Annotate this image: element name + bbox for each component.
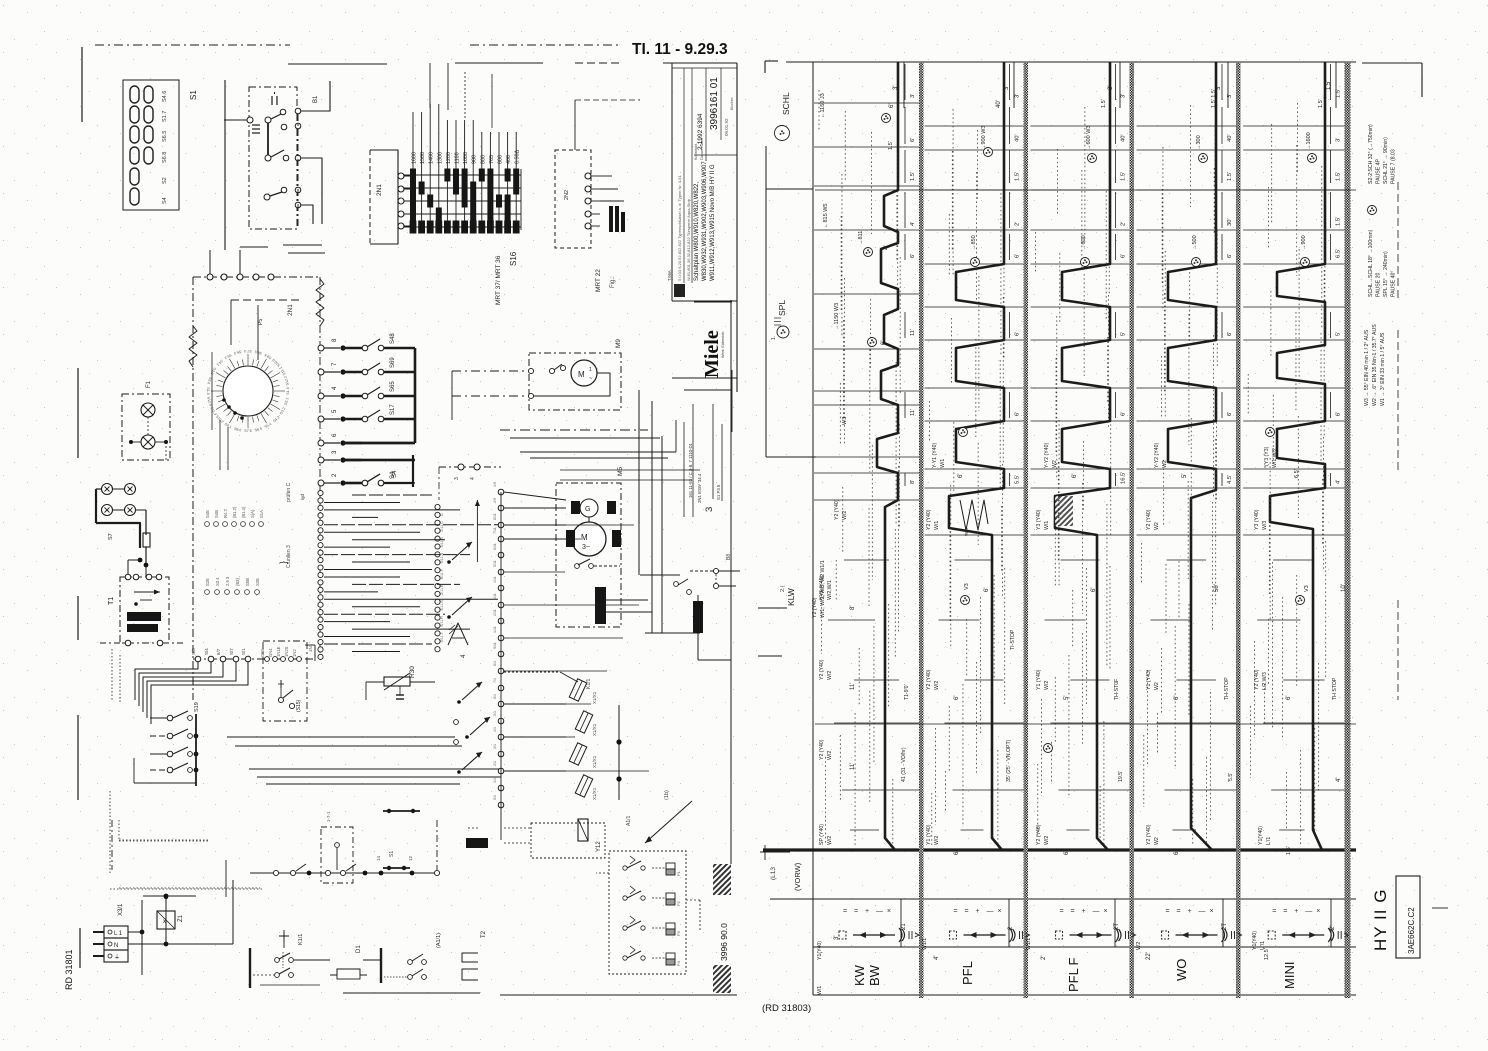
svg-text:×: × [1210, 908, 1214, 915]
svg-text:3AE662C.C2: 3AE662C.C2 [1407, 907, 1416, 954]
svg-text:M9: M9 [615, 339, 622, 348]
svg-text:2-1992 6394: 2-1992 6394 [697, 113, 704, 150]
svg-text:9/11: 9/11 [493, 642, 497, 649]
svg-text:T1: T1 [108, 597, 115, 605]
svg-text:S6.8: S6.8 [162, 152, 168, 163]
svg-text:V3: V3 [1304, 585, 1310, 592]
svg-text:1300: 1300 [437, 152, 443, 164]
chart bottom line [813, 994, 1356, 996]
timer box bottom edge [193, 658, 315, 660]
svg-text:1.5' 1.5': 1.5' 1.5' [1211, 89, 1217, 108]
svg-text:4: 4 [470, 477, 476, 480]
svg-text:Y1(Y40): Y1(Y40) [1258, 826, 1264, 845]
svg-text:6': 6' [1336, 412, 1342, 416]
heating element R1 [693, 601, 703, 633]
svg-text:1N1E: 1N1E [276, 646, 281, 657]
svg-text:MINI: MINI [1282, 962, 1297, 989]
svg-text:6/1: 6/1 [493, 694, 497, 699]
svg-text:2': 2' [1121, 222, 1127, 226]
svg-text:L 1: L 1 [114, 931, 123, 937]
svg-text:2/1: 2/1 [493, 761, 497, 766]
svg-text:Y-Y2 (Y40): Y-Y2 (Y40) [1154, 443, 1160, 468]
step lines column 4 [1137, 125, 1237, 127]
svg-text:6': 6' [910, 254, 916, 258]
contact pair [454, 720, 459, 725]
svg-text:8/11: 8/11 [493, 513, 497, 520]
svg-text:—: — [987, 908, 994, 915]
switch S4 box [362, 459, 413, 461]
resistor R30 [384, 677, 410, 686]
guide lines dotted [818, 90, 820, 130]
svg-text:W/2: W/2 [934, 836, 940, 845]
svg-text:1/11: 1/11 [493, 626, 497, 633]
relay contact K1/1 mid [713, 568, 718, 573]
svg-text:1.5': 1.5' [1336, 172, 1342, 181]
svg-text:W/2: W/2 [827, 671, 833, 680]
B1 right edge [297, 114, 299, 229]
svg-text:~: ~ [589, 376, 593, 382]
pressure switch unit [609, 851, 686, 974]
svg-text:4.5': 4.5' [1227, 475, 1233, 484]
svg-text:K1/1: K1/1 [298, 934, 304, 945]
svg-text:W3: W3 [842, 417, 848, 425]
svg-text:W1 → 3° EIN 33 min 1 / 5° AU: W1 → 3° EIN 33 min 1 / 5° AUS [1380, 332, 1386, 406]
svg-text:T1-9'0’: T1-9'0’ [904, 684, 910, 700]
svg-text:C: C [440, 521, 444, 524]
svg-text:F1: F1 [146, 380, 152, 388]
svg-text:S19: S19 [194, 702, 200, 712]
svg-text:3: 3 [454, 477, 460, 480]
svg-text:600: 600 [498, 155, 504, 164]
svg-text:=: = [954, 908, 958, 915]
switch S19 column [167, 715, 173, 721]
relay arrows cluster [452, 542, 472, 560]
svg-text:W911,W912,W913,W915 Novo M/B H: W911,W912,W913,W915 Novo M/B HY II G [710, 164, 716, 281]
switch S19 bus [195, 714, 197, 786]
mains wires [128, 931, 142, 933]
svg-text:SPL: SPL [777, 300, 787, 316]
lamp [141, 403, 155, 417]
svg-text:Y2 (Y40): Y2 (Y40) [1254, 669, 1260, 690]
relay stack X1/X1 [569, 679, 587, 701]
svg-text:+: + [976, 908, 980, 915]
svg-text:W/2: W/2 [1044, 681, 1050, 690]
svg-text:19.5': 19.5' [1118, 771, 1124, 782]
svg-text:B1: B1 [313, 95, 319, 103]
suppressor D1 [249, 948, 251, 988]
svg-text:W2: W2 [1052, 460, 1058, 468]
svg-text:+: + [1294, 908, 1298, 915]
step lines column 1 [814, 102, 919, 104]
svg-text:W/2: W/2 [934, 681, 940, 690]
relay K contact [448, 623, 468, 645]
signal lamp cluster H [102, 484, 113, 495]
svg-text:PFL F: PFL F [1066, 958, 1081, 992]
svg-text:→1600: →1600 [1306, 132, 1312, 150]
svg-text:6/11: 6/11 [493, 543, 497, 550]
svg-text:6/7: 6/7 [216, 648, 221, 655]
wire stubs [283, 244, 322, 246]
link contacts 3 4 [439, 466, 501, 468]
svg-text:2.(: 2.( [780, 585, 786, 592]
stamp block [674, 284, 685, 297]
wire long risers to right edge [638, 390, 640, 575]
svg-text:→900 W3: →900 W3 [981, 126, 987, 150]
tacho G [580, 499, 598, 517]
svg-text:=: = [854, 908, 858, 915]
switch bank rows [318, 345, 324, 351]
svg-text:3': 3' [1108, 86, 1114, 90]
svg-text:3': 3' [1004, 86, 1010, 90]
svg-text:(B3): (B3) [235, 577, 240, 586]
transformer T1 [120, 577, 169, 643]
svg-text:1N2S: 1N2S [284, 646, 289, 657]
svg-text:K1/1: K1/1 [586, 678, 592, 689]
svg-text:5': 5' [1336, 332, 1342, 336]
svg-text:SP (Y40): SP (Y40) [819, 824, 825, 845]
svg-text:1000: 1000 [463, 152, 469, 164]
relay row above mains [250, 872, 437, 874]
svg-text:→600 W3: →600 W3 [1086, 126, 1092, 150]
wire [209, 250, 211, 274]
svg-text:P3: P3 [676, 930, 681, 936]
svg-text:3': 3' [1015, 94, 1021, 98]
svg-text:(S15): (S15) [296, 699, 302, 712]
wire rungs between chains [352, 494, 432, 496]
svg-text:S17: S17 [390, 404, 396, 415]
svg-text:1.5': 1.5' [1101, 99, 1107, 108]
svg-text:W.81,801,36.32,812-822 Türsper: W.81,801,36.32,812-822 Türsperre Aqua-St… [686, 198, 691, 281]
drain pump M9 [529, 353, 621, 410]
svg-text:Blochm: Blochm [730, 97, 734, 110]
svg-text:3996161 01: 3996161 01 [709, 77, 720, 130]
duration axis column 3 [1115, 64, 1117, 100]
svg-text:1.5': 1.5' [888, 141, 894, 150]
svg-text:6': 6' [1227, 412, 1233, 416]
duration axis column 2 [1009, 64, 1011, 100]
wash zone hatch PFL F [1055, 496, 1073, 526]
svg-text:T.96A: T.96A [667, 270, 672, 281]
svg-text:—: — [876, 908, 883, 915]
svg-text:N: N [114, 943, 118, 949]
svg-text:+: + [1188, 908, 1192, 915]
svg-text:S65: S65 [390, 381, 396, 392]
svg-text:MRT 37/ MRT 36: MRT 37/ MRT 36 [495, 255, 502, 305]
svg-text:Schaltplan W800,W910,W820,W822: Schaltplan W800,W910,W820,W822, [694, 182, 700, 281]
drive motor M5 box [556, 483, 621, 627]
thermal cutout T2 [462, 953, 478, 962]
svg-text:2': 2' [1015, 222, 1021, 226]
svg-text:1.5': 1.5' [1121, 172, 1127, 181]
svg-text:1.5': 1.5' [1326, 81, 1332, 91]
left page right border [730, 300, 732, 864]
svg-text:S2E: S2E [205, 578, 210, 586]
svg-text:Z1: Z1 [178, 914, 184, 922]
B1 armature [267, 123, 269, 155]
svg-text:Y1(Y40): Y1(Y40) [1252, 931, 1258, 950]
svg-text:W2: W2 [1154, 522, 1160, 530]
lamp [141, 435, 155, 449]
temperature trace program WO [1168, 62, 1216, 850]
svg-text:Y1 (Y43): Y1 (Y43) [1146, 669, 1152, 690]
chart top border [786, 61, 1356, 63]
dial position dots [222, 398, 226, 402]
svg-text:J: J [440, 633, 444, 635]
svg-text:W/2: W/2 [842, 511, 848, 520]
svg-text:1100: 1100 [455, 152, 461, 164]
transformer arrow [134, 591, 160, 593]
svg-text:S7.4: S7.4 [244, 349, 251, 353]
wire thick [96, 488, 101, 490]
wire [574, 100, 576, 150]
svg-text:=: = [1177, 908, 1181, 915]
relay stack bus [618, 705, 620, 800]
matrix row wires [404, 174, 521, 176]
svg-text:D: D [440, 513, 444, 516]
svg-text:1.5': 1.5' [910, 172, 916, 181]
svg-text:Fig.:: Fig.: [610, 276, 616, 288]
svg-text:40': 40' [1121, 134, 1127, 142]
svg-text:4': 4' [884, 246, 890, 250]
svg-text:(A1/1): (A1/1) [436, 933, 442, 948]
svg-text:R30: R30 [409, 666, 416, 678]
switch bank bus [414, 348, 417, 443]
svg-text:SCHL 21° → 90min): SCHL 21° → 90min) [1383, 137, 1389, 184]
svg-text:2N1: 2N1 [376, 184, 383, 196]
svg-text:←815 W5: ←815 W5 [823, 204, 829, 228]
svg-text:TI-STOP: TI-STOP [1010, 629, 1016, 650]
svg-text:3': 3' [893, 86, 899, 90]
svg-text:2N1: 2N1 [287, 304, 294, 316]
svg-text:X1/X1: X1/X1 [592, 723, 597, 736]
svg-text:6': 6' [1227, 254, 1233, 258]
relay S15 box [263, 641, 307, 721]
mark [1432, 907, 1448, 909]
svg-text:KLW: KLW [786, 588, 796, 606]
svg-text:4/11: 4/11 [440, 604, 444, 611]
svg-text:(RD 31803): (RD 31803) [762, 1003, 811, 1014]
svg-text:6': 6' [1072, 474, 1078, 478]
svg-text:S7.6: S7.6 [244, 429, 251, 433]
svg-text:6.50Δ: 6.50Δ [515, 150, 521, 164]
svg-text:S/4: S/4 [204, 648, 209, 655]
svg-text:A1/1: A1/1 [626, 815, 632, 826]
matrix diode cells [410, 169, 416, 182]
svg-text:→300: →300 [1196, 135, 1202, 150]
svg-text:D1: D1 [356, 945, 362, 953]
svg-text:S4: S4 [392, 470, 398, 478]
thermostat in M5 [575, 564, 580, 569]
wire [596, 872, 609, 874]
svg-text:TH-STOP: TH-STOP [1224, 677, 1230, 700]
contact (A1/1) [408, 960, 413, 965]
svg-text:2/11: 2/11 [440, 525, 444, 532]
dotted guides bottom left [111, 649, 113, 700]
svg-text:PAUSE 20: PAUSE 20 [1376, 272, 1382, 297]
svg-text:6.5': 6.5' [1294, 469, 1300, 478]
wire [429, 63, 431, 108]
svg-text:'5.5': '5.5' [1228, 773, 1234, 782]
svg-text:M: M [578, 370, 585, 379]
svg-text:P2: P2 [676, 900, 681, 906]
svg-text:30': 30' [1227, 218, 1233, 226]
transformer windings [127, 612, 161, 621]
wire stubs from 11-pin chain [504, 524, 634, 526]
temperature trace program MINI [1270, 62, 1325, 850]
svg-text:⏚: ⏚ [114, 954, 120, 961]
svg-text:H: H [440, 616, 444, 619]
chart thick baseline [763, 848, 1356, 851]
black connector bar [595, 587, 606, 624]
svg-text:V3: V3 [964, 583, 970, 590]
timer top pins [207, 274, 213, 280]
svg-text:5': 5' [1064, 696, 1070, 700]
svg-text:Y2 (Y40): Y2 (Y40) [812, 597, 818, 618]
svg-text:T2: T2 [481, 930, 487, 938]
svg-text:8/1: 8/1 [493, 661, 497, 666]
svg-text:2': 2' [1041, 956, 1047, 960]
svg-text:→811: →811 [858, 231, 864, 245]
svg-text:11': 11' [850, 763, 856, 770]
svg-text:6': 6' [954, 851, 960, 855]
svg-text:RD 31801: RD 31801 [64, 949, 74, 990]
svg-text:3: 3 [704, 507, 715, 512]
svg-text:S1.7: S1.7 [162, 111, 168, 122]
svg-text:3/1: 3/1 [493, 744, 497, 749]
svg-text:S4B: S4B [214, 510, 219, 518]
svg-text:1200: 1200 [446, 152, 452, 164]
motor M5 symbol [572, 522, 606, 556]
svg-text:=: = [1166, 908, 1170, 915]
wire [452, 370, 529, 372]
svg-text:5/1: 5/1 [493, 711, 497, 716]
connector chain X8 left [435, 504, 440, 509]
svg-text:S5B: S5B [245, 578, 250, 586]
dial pointer wires [230, 300, 232, 345]
margin reference line [765, 146, 767, 457]
interference filter Z1 [157, 911, 175, 929]
svg-text:S3 4: S3 4 [215, 577, 220, 586]
svg-text:—: — [1093, 908, 1100, 915]
svg-text:12.5': 12.5' [1264, 948, 1270, 960]
svg-text:Y2 (Y40): Y2 (Y40) [834, 499, 840, 520]
svg-text:W/2,W/1: W/2,W/1 [827, 580, 833, 600]
door lock contacts S1 [387, 809, 391, 813]
svg-text:400: 400 [506, 155, 512, 164]
wire [145, 510, 147, 535]
file box 3AE662C.C2 [1396, 876, 1420, 958]
svg-text:09.01.92: 09.01.92 [724, 118, 729, 136]
svg-text:6': 6' [1064, 851, 1070, 855]
svg-text:6': 6' [1015, 254, 1021, 258]
svg-text:W/2: W/2 [1044, 836, 1050, 845]
wire [301, 205, 313, 224]
svg-text:S1: S1 [189, 90, 198, 100]
svg-text:1600: 1600 [412, 152, 418, 164]
svg-text:6': 6' [1121, 412, 1127, 416]
svg-text:1.5': 1.5' [1227, 172, 1233, 181]
svg-text:3996 90.0: 3996 90.0 [719, 923, 729, 961]
svg-text:G: G [585, 506, 590, 513]
duration axis column 1 [904, 64, 906, 100]
transformer bottom pins [125, 640, 131, 646]
svg-text:14: 14 [376, 855, 381, 861]
svg-text:S7: S7 [108, 533, 114, 540]
svg-text:S2E: S2E [255, 578, 260, 586]
svg-text:11': 11' [850, 683, 856, 690]
svg-text:P5: P5 [258, 319, 264, 325]
svg-text:1.5': 1.5' [1336, 217, 1342, 226]
svg-text:8': 8' [910, 480, 916, 484]
program dial [223, 366, 273, 416]
timer bottom pins [195, 656, 201, 662]
svg-text:GN4: GN4 [268, 648, 273, 657]
temperature trace program PFL [949, 62, 1004, 850]
svg-text:S/7: S/7 [229, 648, 234, 655]
svg-text:5': 5' [1121, 332, 1127, 336]
pressure pot [666, 923, 675, 929]
svg-text:1.5': 1.5' [1286, 846, 1292, 855]
svg-text:4/11: 4/11 [493, 576, 497, 583]
svg-text:Y1 (Y40): Y1 (Y40) [926, 824, 932, 845]
step lines column 5 [1243, 125, 1344, 127]
svg-text:W/1: W/1 [817, 986, 823, 995]
chart row line 1 [770, 898, 1356, 900]
svg-text:×: × [1316, 908, 1320, 915]
svg-text:S1.0: S1.0 [286, 387, 290, 394]
temperature trace program KW BW [877, 62, 898, 850]
svg-text:1/1: 1/1 [493, 778, 497, 783]
svg-text:W/3: W/3 [1262, 521, 1268, 530]
B1 contacts [247, 117, 253, 123]
svg-text:→500: →500 [1192, 235, 1198, 250]
svg-text:PAUSE 4P: PAUSE 4P [1376, 158, 1382, 184]
svg-text:Werk Gütersloh: Werk Gütersloh [721, 332, 725, 358]
svg-text:M: M [581, 533, 588, 542]
svg-text:1500: 1500 [420, 152, 426, 164]
svg-text:10': 10' [1341, 584, 1347, 592]
svg-text:2/9: 2/9 [493, 498, 497, 503]
svg-text:21: 21 [901, 923, 907, 930]
svg-text:3/11: 3/11 [493, 593, 497, 600]
matrix bottom row bar [410, 221, 417, 234]
corner mark top left of chart [764, 61, 766, 73]
svg-text:W1/1: W1/1 [922, 938, 928, 950]
svg-text:R4.7: R4.7 [223, 508, 228, 518]
svg-text:Miele: Miele [701, 330, 723, 378]
svg-text:3': 3' [1121, 94, 1127, 98]
timer right edge pin chain [316, 279, 324, 326]
svg-text:S4: S4 [162, 197, 168, 204]
svg-text:W/1,W/2: W/1,W/2 [1272, 448, 1278, 468]
svg-text:S1 P3 5: S1 P3 5 [716, 484, 721, 500]
svg-text:S48: S48 [390, 333, 396, 344]
svg-text:Y2 (Y40): Y2 (Y40) [819, 659, 825, 680]
svg-text:S1.5: S1.5 [206, 387, 210, 394]
svg-text:W/1: W/1 [1044, 521, 1050, 530]
svg-text:W2: W2 [1154, 837, 1160, 845]
svg-text:5/11: 5/11 [493, 560, 497, 567]
timer box right edge [319, 277, 321, 659]
wire bottom rail [343, 992, 480, 994]
B1 marks [271, 96, 273, 105]
lamp box [122, 394, 170, 460]
wire [468, 827, 480, 829]
svg-text:PAUSE 40°: PAUSE 40° [1391, 271, 1397, 298]
connector 2N1 [370, 150, 398, 244]
svg-text:6': 6' [1091, 588, 1097, 592]
svg-text:2N1 ESW '34.4: 2N1 ESW '34.4 [697, 473, 702, 503]
